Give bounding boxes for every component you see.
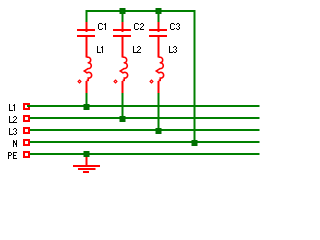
inductor L2 — [120, 57, 127, 80]
label bus L1 — [9, 104, 15, 111]
ground — [73, 151, 100, 172]
branch 3: C3/L3 — [149, 8, 167, 58]
inductor L1 bottom lead — [86, 81, 88, 93]
label C1 — [98, 23, 106, 30]
capacitor C2 — [122, 22, 124, 32]
label L2 (branch) — [133, 46, 141, 53]
winding dot L3 — [150, 80, 153, 83]
wire: branch3 bottom green — [158, 93, 160, 130]
wire: bus N — [27, 141, 260, 143]
junction top C3 — [156, 8, 162, 14]
wire: bus L2 — [27, 117, 260, 119]
wire: bus wires over terminals — [27, 105, 31, 107]
wire: branch1 top green — [86, 10, 88, 23]
terminal N — [23, 139, 30, 146]
wire: branch2 top green — [122, 10, 124, 23]
wire: branch3 top green — [158, 10, 160, 23]
wire: top bus from C1 branch to right drop — [86, 10, 196, 12]
wire: bus L1 — [27, 105, 260, 107]
wire: bus PE — [27, 153, 260, 155]
winding dot L1 — [78, 80, 81, 83]
junction right/N — [192, 140, 198, 146]
terminal L2 — [23, 115, 30, 122]
junction ground/PE — [84, 151, 90, 157]
inductor L2 bottom lead — [122, 81, 124, 93]
inductor L3 — [156, 57, 163, 80]
wire: branch1 bottom green — [86, 93, 88, 106]
terminal L3 — [23, 127, 30, 134]
branch 1: C1/L1 — [77, 10, 95, 58]
junction branch1/L1 — [84, 104, 90, 110]
label C3 — [170, 23, 180, 30]
wire: right vertical drop to N — [194, 10, 196, 142]
junction branch3/L3 — [156, 128, 162, 134]
label L3 (branch) — [169, 46, 177, 53]
wire: branch2 bottom green — [122, 93, 124, 118]
junction top C2 — [120, 8, 126, 14]
inductor L3 bottom lead — [158, 81, 160, 93]
capacitor C1 — [86, 22, 88, 32]
junction branch2/L2 — [120, 116, 126, 122]
terminal PE — [23, 151, 30, 158]
wire: bus L3 — [27, 129, 260, 131]
label bus N — [13, 140, 17, 147]
terminal L1 — [23, 103, 30, 110]
label L1 (branch) — [97, 46, 103, 53]
label bus PE — [8, 152, 17, 159]
label bus L3 — [9, 128, 17, 135]
label C2 — [134, 23, 144, 30]
winding dot L2 — [114, 80, 117, 83]
inductor L1 — [84, 57, 91, 80]
branch 2: C2/L2 — [113, 8, 131, 58]
label bus L2 — [9, 116, 17, 123]
capacitor C3 — [158, 22, 160, 32]
